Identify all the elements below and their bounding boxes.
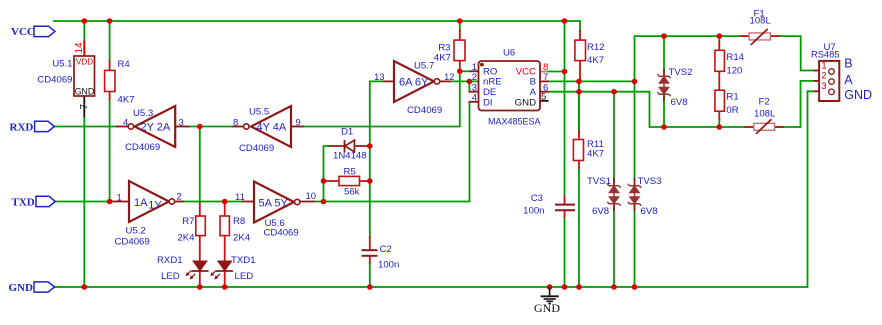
svg-text:1Y: 1Y xyxy=(148,199,162,211)
svg-text:108L: 108L xyxy=(754,109,776,120)
svg-text:8: 8 xyxy=(543,62,548,73)
svg-text:3: 3 xyxy=(822,81,827,91)
svg-text:VCC: VCC xyxy=(11,26,35,38)
svg-text:U6: U6 xyxy=(503,48,515,59)
svg-text:CD4069: CD4069 xyxy=(239,143,274,154)
svg-text:8: 8 xyxy=(233,117,238,128)
svg-text:MAX485ESA: MAX485ESA xyxy=(488,117,541,127)
svg-text:R7: R7 xyxy=(182,216,194,227)
svg-text:1A: 1A xyxy=(134,197,148,209)
svg-text:LED: LED xyxy=(161,271,180,282)
svg-text:4: 4 xyxy=(472,93,477,104)
svg-text:1: 1 xyxy=(822,60,827,70)
svg-text:2K4: 2K4 xyxy=(233,232,251,243)
svg-text:R4: R4 xyxy=(118,59,131,70)
svg-text:TVS3: TVS3 xyxy=(638,176,662,187)
svg-text:108L: 108L xyxy=(750,16,772,27)
svg-text:6A 6Y: 6A 6Y xyxy=(399,77,429,89)
svg-text:2: 2 xyxy=(177,191,182,202)
svg-text:13: 13 xyxy=(374,72,385,83)
svg-text:100n: 100n xyxy=(378,260,399,271)
svg-text:6V8: 6V8 xyxy=(671,97,688,108)
svg-text:C3: C3 xyxy=(531,193,543,204)
svg-text:LED: LED xyxy=(235,271,254,282)
svg-text:D1: D1 xyxy=(341,127,353,138)
svg-text:GND: GND xyxy=(9,282,34,294)
svg-text:VDD: VDD xyxy=(76,57,93,66)
svg-text:5: 5 xyxy=(541,92,546,103)
svg-text:TXD: TXD xyxy=(12,196,35,208)
svg-text:4K7: 4K7 xyxy=(118,94,135,105)
svg-text:GND: GND xyxy=(534,301,560,315)
svg-text:1N4148: 1N4148 xyxy=(333,151,367,162)
svg-text:GND: GND xyxy=(844,88,872,102)
svg-text:B: B xyxy=(844,56,852,70)
svg-text:0R: 0R xyxy=(726,105,738,116)
svg-text:7: 7 xyxy=(79,104,90,110)
svg-text:U5.2: U5.2 xyxy=(126,226,146,237)
svg-text:2: 2 xyxy=(822,71,827,81)
svg-text:4K7: 4K7 xyxy=(434,52,451,63)
svg-text:TVS2: TVS2 xyxy=(669,67,693,78)
svg-text:CD4069: CD4069 xyxy=(37,75,72,86)
svg-text:4K7: 4K7 xyxy=(587,55,604,66)
svg-text:DI: DI xyxy=(483,97,493,108)
svg-text:11: 11 xyxy=(235,192,245,203)
svg-text:U5.3: U5.3 xyxy=(133,108,153,119)
svg-text:12: 12 xyxy=(444,72,455,83)
svg-text:9: 9 xyxy=(296,117,301,128)
svg-text:F2: F2 xyxy=(759,96,770,107)
svg-text:100n: 100n xyxy=(523,205,544,216)
svg-text:2Y 2A: 2Y 2A xyxy=(141,122,171,134)
svg-text:U5.5: U5.5 xyxy=(249,106,269,117)
svg-text:6V8: 6V8 xyxy=(641,206,658,217)
svg-text:5A 5Y: 5A 5Y xyxy=(259,198,289,210)
svg-text:RS485: RS485 xyxy=(811,50,839,60)
svg-text:14: 14 xyxy=(74,42,85,54)
svg-text:4: 4 xyxy=(123,117,128,128)
svg-text:C2: C2 xyxy=(380,244,392,255)
svg-text:A: A xyxy=(844,73,853,87)
svg-text:R1: R1 xyxy=(726,91,738,102)
svg-text:RXD: RXD xyxy=(10,121,34,133)
svg-text:GND: GND xyxy=(515,97,536,108)
svg-text:56k: 56k xyxy=(344,186,360,197)
svg-text:CD4069: CD4069 xyxy=(115,237,150,248)
svg-text:120: 120 xyxy=(726,65,742,76)
svg-text:6V8: 6V8 xyxy=(592,206,609,217)
svg-text:10: 10 xyxy=(306,191,317,202)
svg-text:2K4: 2K4 xyxy=(177,232,195,243)
svg-text:4K7: 4K7 xyxy=(587,148,604,159)
svg-text:CD4069: CD4069 xyxy=(264,227,299,238)
svg-text:R12: R12 xyxy=(587,42,605,53)
svg-text:3: 3 xyxy=(179,117,184,128)
svg-text:CD4069: CD4069 xyxy=(407,105,442,116)
svg-text:R8: R8 xyxy=(233,216,245,227)
svg-text:RXD1: RXD1 xyxy=(157,255,183,266)
svg-text:U5.1: U5.1 xyxy=(52,59,72,70)
svg-text:GND: GND xyxy=(75,87,95,97)
svg-text:TVS1: TVS1 xyxy=(587,176,611,187)
svg-text:R14: R14 xyxy=(726,52,744,63)
svg-text:4Y 4A: 4Y 4A xyxy=(257,122,287,134)
svg-text:CD4069: CD4069 xyxy=(125,142,160,153)
svg-text:RO: RO xyxy=(483,66,497,77)
svg-text:R5: R5 xyxy=(344,166,356,177)
svg-text:1: 1 xyxy=(117,192,122,203)
svg-text:U5.7: U5.7 xyxy=(414,61,434,72)
svg-text:TXD1: TXD1 xyxy=(231,255,256,266)
